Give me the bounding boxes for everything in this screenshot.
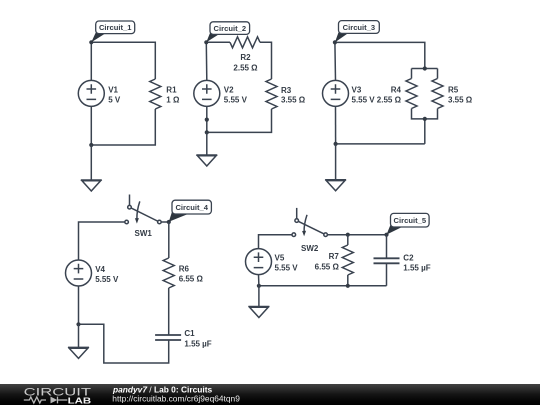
wire circuit5 top-left [259,235,292,249]
voltage source V3 [323,80,349,106]
svg-text:V2: V2 [224,85,234,94]
wire V3 bottom [335,106,337,143]
resistor R2 [230,37,260,48]
wire circuit2 ground stub [206,132,208,155]
wire circuit2 top-left [206,41,230,43]
node circuit2 top-left [204,40,208,44]
label R4 [377,85,402,104]
wire circuit5 bottom [259,285,387,287]
svg-text:2.55 Ω: 2.55 Ω [377,95,402,104]
voltage source V5 [246,249,272,275]
wire circuit2 top-right [260,42,272,79]
wire C2 bottom lead [386,263,388,286]
footer bar [0,384,540,405]
node circuit4 bottom-left [76,322,80,326]
svg-text:5.55 V: 5.55 V [352,95,376,104]
label V2 [224,85,248,104]
wire C2 top lead [386,235,388,259]
capacitor C1 [155,335,181,340]
node circuit5 C2 top [384,233,388,237]
svg-text:SW1: SW1 [135,229,153,238]
ground circuit1 [81,180,102,191]
label V4 [95,265,119,284]
svg-text:R2: R2 [240,53,251,62]
node circuit5 bottom-left [257,284,261,288]
callout Circuit_5 [387,213,430,234]
node circuit5 R7 top [346,233,350,237]
voltage source V2 [194,80,220,106]
label R6 [179,264,204,283]
label R1 [166,85,180,104]
wire circuit1 top [91,42,155,79]
svg-text:R7: R7 [329,252,340,261]
callout Circuit_3 [335,21,379,43]
wire circuit1 ground stub [90,145,92,180]
wire V4 bottom [78,286,80,324]
wire V1 bottom [90,106,92,145]
svg-text:1.55 µF: 1.55 µF [403,264,430,273]
label R3 [281,86,306,105]
wire circuit3 ground stub [335,144,337,180]
node circuit4 [167,220,171,224]
svg-text:SW2: SW2 [301,244,319,253]
svg-text:R5: R5 [448,85,459,94]
svg-text:R1: R1 [166,85,177,94]
svg-text:Circuit_5: Circuit_5 [394,216,427,225]
voltage source V1 [78,80,104,106]
label V5 [275,254,299,273]
svg-text:Circuit_3: Circuit_3 [343,23,376,32]
wire circuit4 ground stub [78,324,80,347]
wire circuit3 ladder bottom [412,109,438,144]
node circuit1 top-left [89,40,93,44]
ground circuit2 [196,155,217,166]
resistor R7 [342,245,353,275]
label C2 [403,253,430,272]
wire circuit4 top-left [79,222,125,260]
svg-text:1.55 µF: 1.55 µF [184,339,211,348]
node circuit3 ladder bottom [423,117,427,121]
wire R6 to C1 [168,288,170,335]
svg-text:6.55 Ω: 6.55 Ω [179,275,204,284]
svg-text:Circuit_1: Circuit_1 [99,23,132,32]
svg-text:1 Ω: 1 Ω [166,95,180,104]
node circuit3 ladder top [423,66,427,70]
wire V5 bottom [258,275,260,286]
label R7 [315,252,340,272]
svg-text:6.55 Ω: 6.55 Ω [315,263,340,272]
wire circuit1 right-bottom [91,109,155,145]
resistor R6 [163,258,174,288]
label V1 [108,85,121,104]
callout Circuit_1 [91,21,134,42]
svg-text:LAB: LAB [68,395,92,405]
svg-text:5.55 V: 5.55 V [95,275,119,284]
svg-text:R3: R3 [281,86,292,95]
wire V2 bottom [206,106,208,132]
callout Circuit_4 [169,200,212,222]
svg-text:3.55 Ω: 3.55 Ω [281,96,306,105]
wire SW2 to C2 [328,234,387,236]
svg-text:V3: V3 [352,85,362,94]
wire circuit3 left [334,42,337,80]
svg-text:C2: C2 [403,253,414,262]
svg-text:V5: V5 [275,254,285,263]
wire circuit3 bottom [336,143,425,145]
node circuit2 mid [205,118,209,122]
node circuit1 bottom-left [89,143,93,147]
switch SW1 [125,195,161,224]
wire circuit2 left [205,42,208,80]
label C1 [184,329,211,348]
label V3 [352,85,376,104]
svg-text:C1: C1 [184,329,195,338]
resistor R5 [432,79,443,109]
resistor R3 [266,79,277,109]
node circuit5 R7 bottom [346,284,350,288]
switch SW2 [292,208,327,237]
logo resistor-diode line [24,397,68,404]
wire R7 bottom lead [347,275,349,286]
ground circuit5 [248,307,269,318]
wire circuit3 top [335,42,425,68]
svg-text:2.55 Ω: 2.55 Ω [233,63,258,72]
node circuit3 bottom-left [334,142,338,146]
voltage source V4 [66,260,92,286]
svg-text:R4: R4 [391,85,402,94]
svg-text:5 V: 5 V [108,95,121,104]
svg-text:V1: V1 [108,85,118,94]
svg-text:5.55 V: 5.55 V [224,95,248,104]
wire circuit5 ground stub [258,286,260,307]
capacitor C2 [374,258,400,263]
node circuit3 top-left [333,40,337,44]
label R5 [448,85,473,104]
callout Circuit_2 [206,22,249,43]
wire circuit2 right-bottom [207,109,272,132]
svg-text:http://circuitlab.com/cr6j9eq6: http://circuitlab.com/cr6j9eq64tqn9 [112,393,240,403]
wire circuit1 left [90,42,92,80]
wire SW1 to node [161,221,168,223]
svg-text:5.55 V: 5.55 V [275,264,299,273]
resistor R1 [150,79,161,109]
ground circuit4 [68,347,89,358]
wire circuit4 right [168,222,170,258]
wire circuit3 ladder top [412,69,438,79]
node circuit2 bottom [205,130,209,134]
resistor R4 [406,79,417,109]
wire circuit4 bottom [79,324,169,363]
svg-text:Circuit_2: Circuit_2 [214,24,247,33]
label R2 [233,53,258,72]
svg-text:Circuit_4: Circuit_4 [175,203,208,212]
svg-text:R6: R6 [179,264,190,273]
svg-text:V4: V4 [95,265,105,274]
ground circuit3 [325,180,346,191]
wire R7 top lead [347,235,349,245]
svg-text:3.55 Ω: 3.55 Ω [448,95,473,104]
